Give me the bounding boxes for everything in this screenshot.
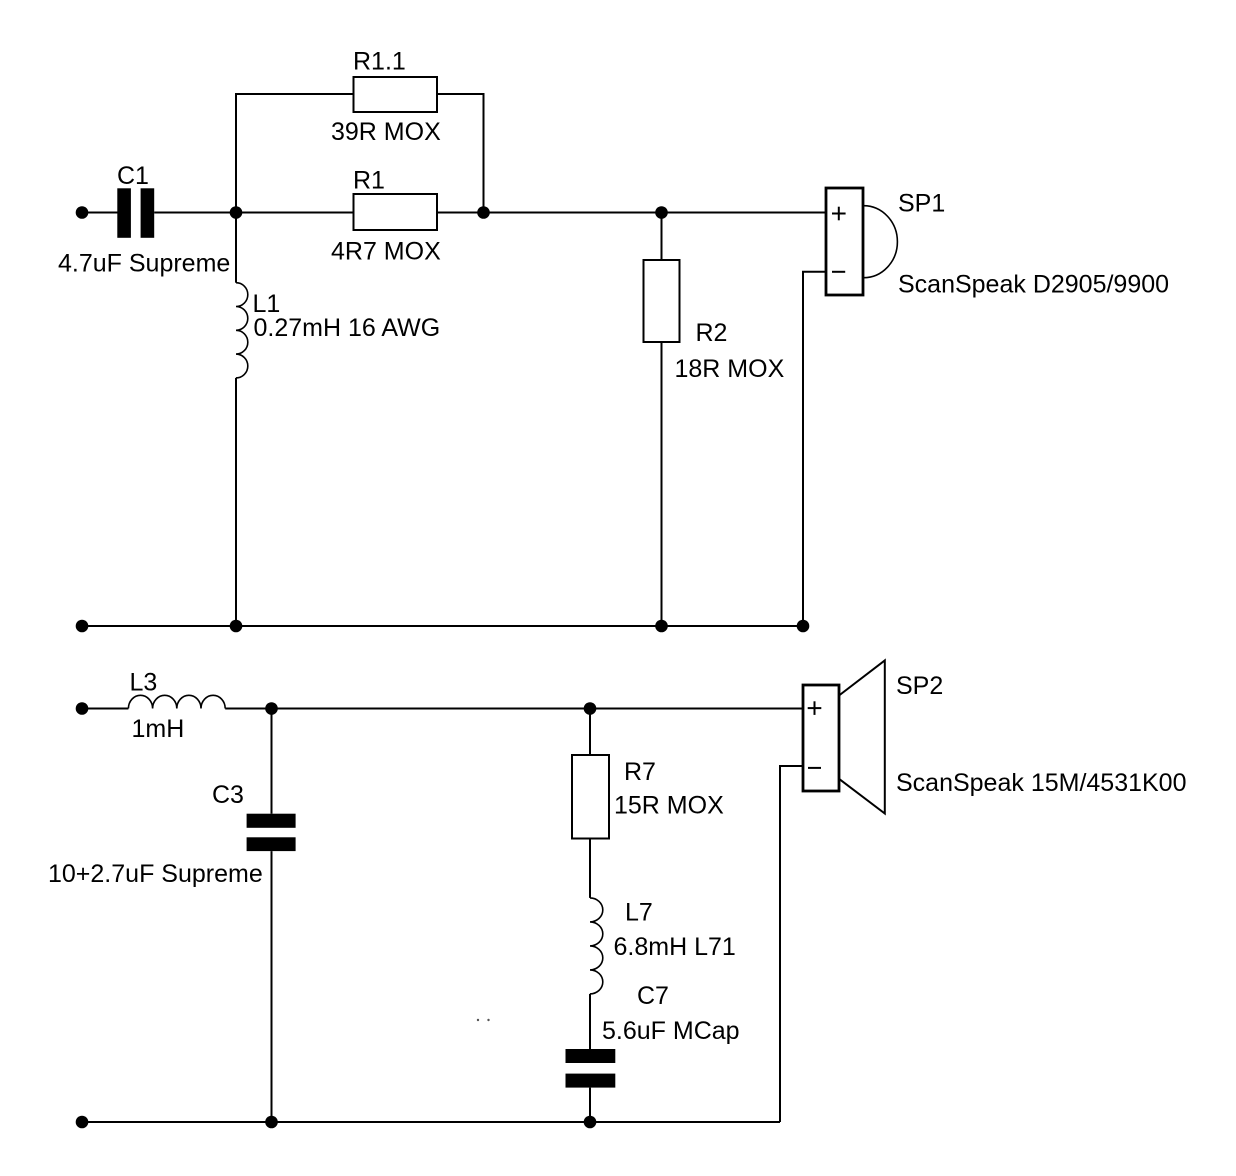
resistor R7 (572, 755, 609, 839)
wire (589, 709, 591, 756)
svg-text:R2: R2 (696, 319, 728, 347)
svg-text:39R MOX: 39R MOX (331, 118, 441, 146)
node IN2- terminal dot (76, 1116, 89, 1129)
wire (225, 708, 271, 710)
capacitor C1 (117, 188, 154, 238)
resistor R1 (354, 194, 438, 230)
svg-text:5.6uF MCap: 5.6uF MCap (602, 1017, 740, 1045)
resistor R1.1 (354, 77, 438, 112)
wire (236, 212, 354, 214)
svg-text:R1.1: R1.1 (353, 48, 406, 76)
wire (236, 94, 354, 213)
svg-text:6.8mH L71: 6.8mH L71 (614, 933, 736, 961)
svg-text:R7: R7 (624, 758, 656, 786)
svg-text:ScanSpeak D2905/9900: ScanSpeak D2905/9900 (898, 270, 1169, 298)
junction dot (230, 620, 243, 633)
wire (154, 212, 236, 214)
svg-text:ScanSpeak 15M/4531K00: ScanSpeak 15M/4531K00 (896, 769, 1187, 797)
svg-text:4R7 MOX: 4R7 MOX (331, 238, 441, 266)
svg-text:L3: L3 (130, 669, 158, 697)
svg-text:4.7uF Supreme: 4.7uF Supreme (58, 249, 230, 277)
wire (271, 851, 273, 1122)
wire (589, 839, 591, 898)
svg-text:SP1: SP1 (898, 190, 945, 218)
wire (590, 708, 803, 710)
wire ground rail top circuit (82, 625, 803, 627)
node E junction (584, 702, 597, 715)
svg-text:1mH: 1mH (132, 715, 185, 743)
wire (589, 994, 591, 1049)
wire (803, 272, 826, 626)
node C junction (655, 206, 668, 219)
svg-text:0.27mH 16 AWG: 0.27mH 16 AWG (254, 314, 441, 342)
inductor L3 (128, 695, 225, 708)
artifact dot (487, 1019, 489, 1021)
node D junction (265, 702, 278, 715)
speaker SP1 (826, 188, 897, 295)
svg-text:10+2.7uF Supreme: 10+2.7uF Supreme (48, 860, 263, 888)
speaker SP2 (803, 660, 885, 813)
node B junction (477, 206, 490, 219)
svg-text:SP2: SP2 (896, 672, 943, 700)
node A junction (230, 206, 243, 219)
wire (82, 212, 118, 214)
wire (437, 212, 826, 214)
svg-text:C1: C1 (117, 162, 149, 190)
wire (780, 766, 803, 1122)
node IN1+ terminal dot (76, 206, 89, 219)
junction dot (797, 620, 810, 633)
wire (661, 213, 663, 261)
capacitor C3 (247, 814, 296, 851)
inductor L7 (590, 898, 603, 994)
svg-text:R1: R1 (353, 167, 385, 195)
svg-text:15R MOX: 15R MOX (614, 792, 724, 820)
inductor L1 (236, 213, 248, 378)
junction dot (265, 1116, 278, 1129)
wire (272, 708, 591, 710)
wire (589, 1088, 591, 1122)
svg-text:L7: L7 (625, 899, 653, 927)
wire (437, 94, 484, 213)
wire (271, 709, 273, 814)
svg-text:18R MOX: 18R MOX (675, 355, 785, 383)
node IN1- terminal dot (76, 620, 89, 633)
wire (235, 378, 237, 626)
svg-text:C7: C7 (637, 982, 669, 1010)
junction dot (584, 1116, 597, 1129)
junction dot (655, 620, 668, 633)
capacitor C7 (566, 1049, 616, 1088)
node IN2+ terminal dot (76, 702, 89, 715)
resistor R2 (644, 260, 680, 342)
wire (82, 708, 128, 710)
svg-text:C3: C3 (212, 781, 244, 809)
wire (661, 342, 663, 626)
wire ground rail bottom circuit (82, 1121, 780, 1123)
artifact dot (477, 1019, 479, 1021)
